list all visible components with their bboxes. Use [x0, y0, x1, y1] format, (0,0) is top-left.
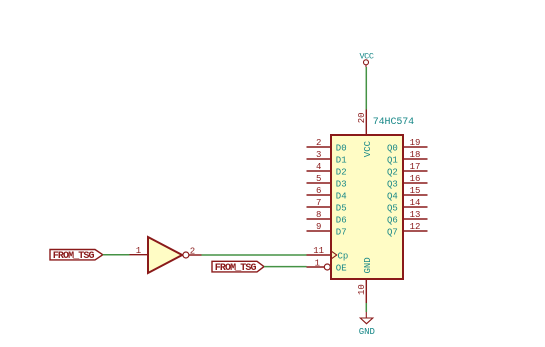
- svg-text:19: 19: [410, 138, 421, 148]
- svg-text:13: 13: [410, 210, 421, 220]
- wire inverter output to pin 11 Cp: [202, 254, 307, 256]
- svg-text:5: 5: [316, 174, 321, 184]
- svg-text:Q2: Q2: [387, 167, 398, 177]
- svg-text:14: 14: [410, 198, 421, 208]
- svg-text:1: 1: [315, 258, 320, 268]
- svg-text:20: 20: [357, 112, 367, 123]
- pin 10 GND: [357, 257, 373, 303]
- svg-text:17: 17: [410, 162, 421, 172]
- svg-text:D4: D4: [336, 191, 347, 201]
- pin 17 Q2: [387, 162, 428, 177]
- svg-text:D0: D0: [336, 143, 347, 153]
- pin 16 Q3: [387, 174, 428, 189]
- pin 11 Cp clock: [307, 246, 349, 261]
- svg-text:Q4: Q4: [387, 191, 398, 201]
- svg-text:Q5: Q5: [387, 203, 398, 213]
- pin 15 Q4: [387, 186, 428, 201]
- svg-text:8: 8: [316, 210, 321, 220]
- svg-text:3: 3: [316, 150, 321, 160]
- svg-text:18: 18: [410, 150, 421, 160]
- pin 9 D7: [307, 222, 347, 237]
- global label FROM_TSG (left): [50, 250, 103, 263]
- pin 20 VCC: [357, 110, 373, 158]
- svg-text:D1: D1: [336, 155, 347, 165]
- pin 4 D2: [307, 162, 347, 177]
- inverter pin 1: [130, 246, 149, 256]
- inverter pin 2: [189, 247, 202, 257]
- svg-text:FROM_TSG: FROM_TSG: [53, 251, 95, 262]
- svg-text:VCC: VCC: [363, 140, 373, 157]
- ground symbol GND: [359, 312, 375, 337]
- svg-text:D6: D6: [336, 215, 347, 225]
- svg-text:Q0: Q0: [387, 143, 398, 153]
- global label FROM_TSG (right): [212, 261, 264, 274]
- svg-text:12: 12: [410, 222, 421, 232]
- wire VCC to pin 20: [365, 67, 367, 110]
- svg-text:74HC574: 74HC574: [373, 117, 414, 128]
- svg-text:2: 2: [316, 138, 321, 148]
- svg-text:2: 2: [190, 247, 195, 257]
- wire FROM_TSG to pin 1 OE: [264, 266, 307, 268]
- pin 19 Q0: [387, 138, 428, 153]
- pin 3 D1: [307, 150, 347, 165]
- svg-text:FROM_TSG: FROM_TSG: [215, 263, 257, 274]
- svg-text:1: 1: [136, 246, 141, 256]
- svg-text:6: 6: [316, 186, 321, 196]
- svg-text:Q6: Q6: [387, 215, 398, 225]
- pin 8 D6: [307, 210, 347, 225]
- svg-text:Cp: Cp: [338, 251, 349, 261]
- svg-text:10: 10: [357, 284, 367, 295]
- svg-text:GND: GND: [363, 257, 373, 273]
- svg-text:D2: D2: [336, 167, 347, 177]
- svg-text:D7: D7: [336, 227, 347, 237]
- svg-text:15: 15: [410, 186, 421, 196]
- svg-text:D3: D3: [336, 179, 347, 189]
- pin 12 Q7: [387, 222, 428, 237]
- svg-text:GND: GND: [359, 327, 375, 337]
- svg-text:9: 9: [316, 222, 321, 232]
- svg-text:7: 7: [316, 198, 321, 208]
- pin 1 OE inverted: [307, 258, 347, 273]
- pin 5 D3: [307, 174, 347, 189]
- pin 18 Q1: [387, 150, 428, 165]
- svg-text:Q7: Q7: [387, 227, 398, 237]
- svg-text:Q3: Q3: [387, 179, 398, 189]
- wire pin 10 to GND symbol: [365, 303, 367, 312]
- svg-text:11: 11: [313, 246, 324, 256]
- svg-text:Q1: Q1: [387, 155, 398, 165]
- power symbol VCC: [359, 52, 373, 68]
- svg-text:D5: D5: [336, 203, 347, 213]
- svg-text:OE: OE: [336, 263, 347, 273]
- pin 2 D0: [307, 138, 347, 153]
- pin 13 Q6: [387, 210, 428, 225]
- svg-text:16: 16: [410, 174, 421, 184]
- wire FROM_TSG to inverter input: [103, 254, 130, 256]
- pin 7 D5: [307, 198, 347, 213]
- pin 6 D4: [307, 186, 347, 201]
- IC U1 74HC574 body: [331, 135, 403, 279]
- svg-text:4: 4: [316, 162, 321, 172]
- transistor/inverter buffer triangle: [148, 237, 189, 273]
- pin 14 Q5: [387, 198, 428, 213]
